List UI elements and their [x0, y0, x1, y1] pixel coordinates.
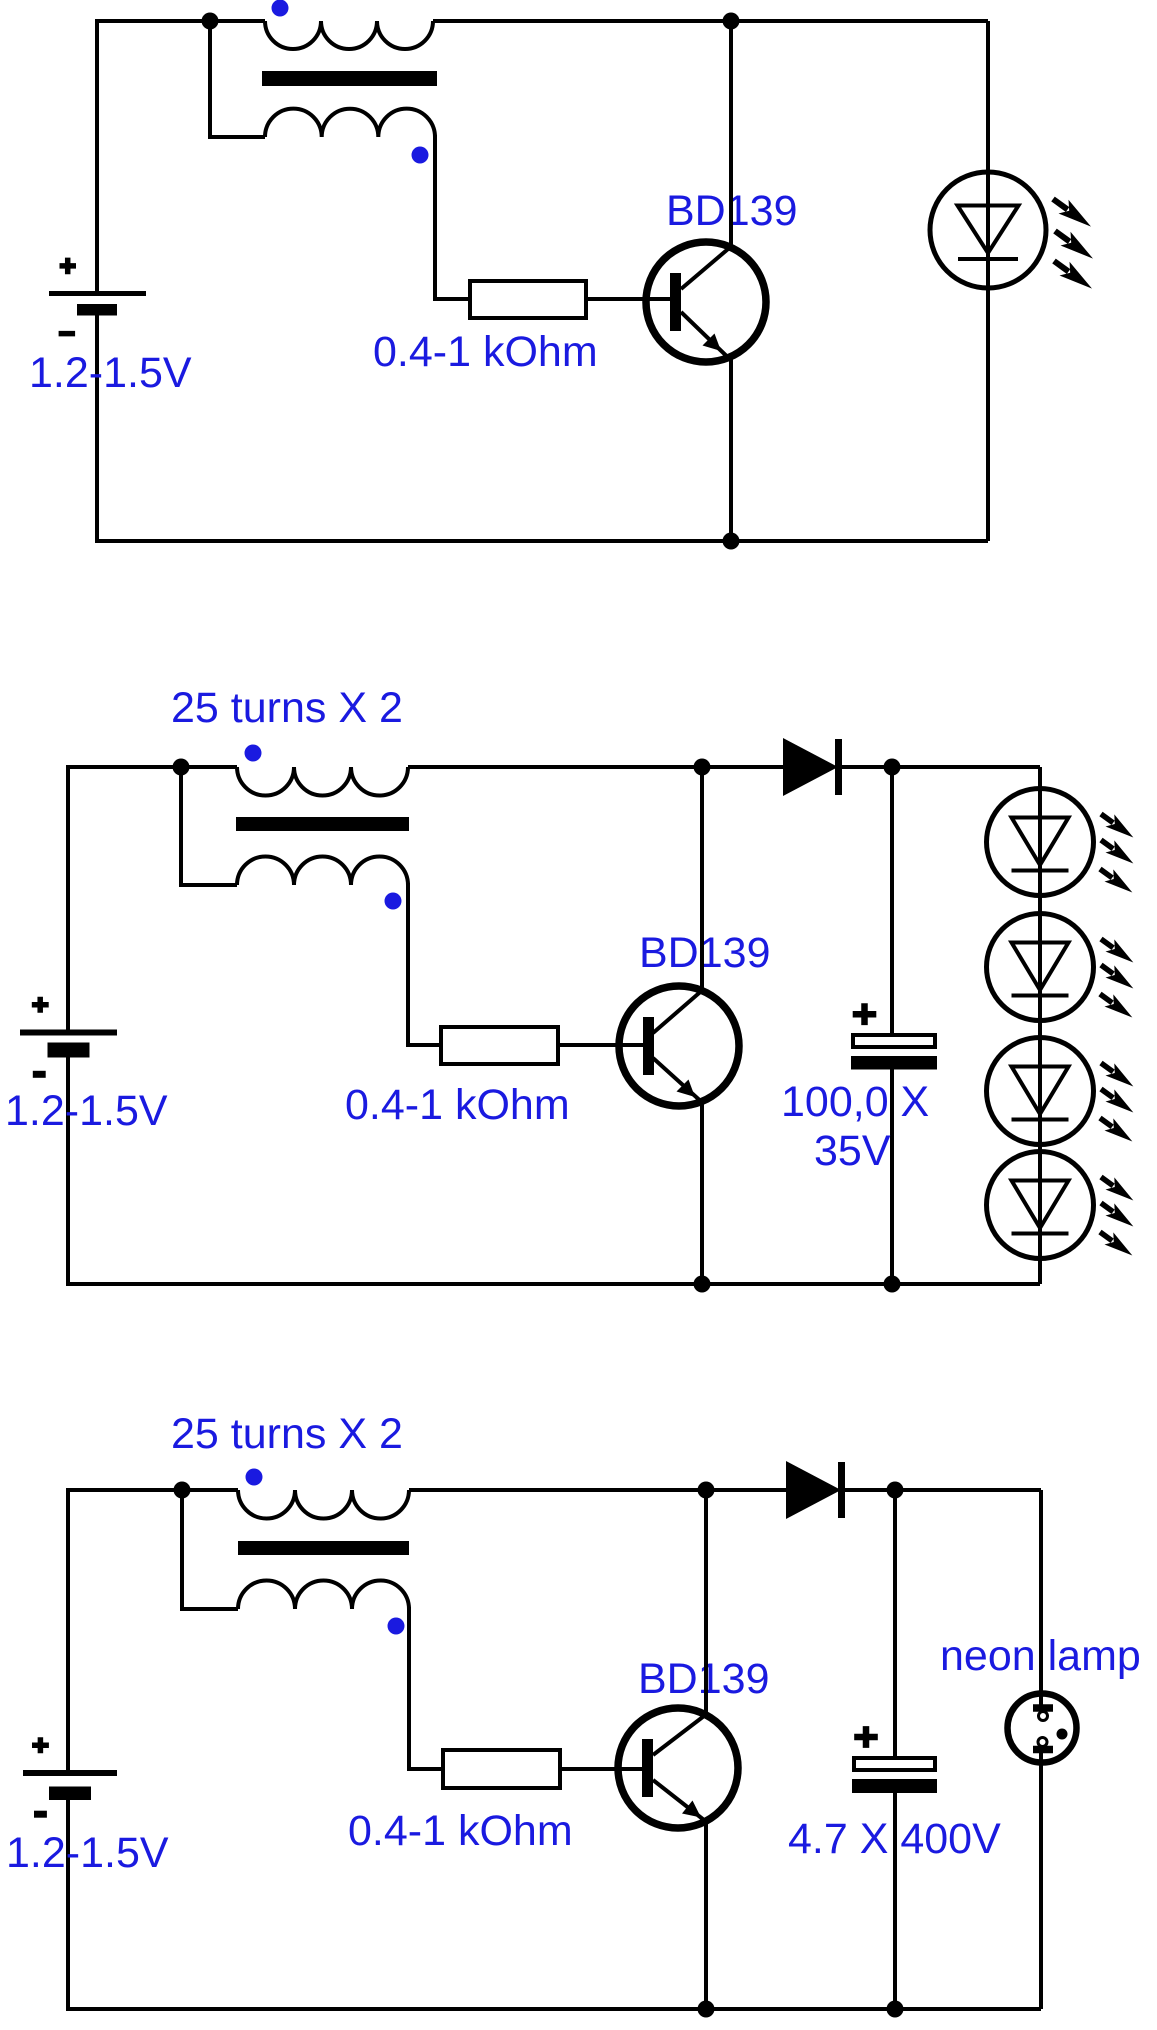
svg-text:BD139: BD139: [638, 1655, 769, 1703]
transistor Q1 body circle: [646, 242, 766, 362]
LED D5 light arrow 3: [1096, 1112, 1137, 1148]
svg-text:25 turns X 2: 25 turns X 2: [171, 1410, 403, 1458]
junction node at transformer tap: [173, 759, 190, 776]
transformer T2 phase dot primary: [245, 745, 262, 762]
neon lamp NE1 bottom electrode tip: [1038, 1738, 1047, 1747]
LED D4 light arrow 1: [1097, 933, 1138, 969]
LED D4 light arrow 2: [1097, 959, 1138, 995]
svg-text:100,0 X: 100,0 X: [781, 1078, 929, 1126]
LED D1 light arrow 2: [1050, 224, 1098, 265]
wire: bottom rail: [66, 1282, 1040, 1286]
LED D1 light arrow 1: [1048, 192, 1096, 233]
neon lamp NE1 gas dot: [1057, 1729, 1068, 1740]
diode D2 triangle: [783, 738, 838, 796]
junction node collector top: [698, 1482, 715, 1499]
wire: neon lamp top vertical: [1039, 1490, 1043, 1708]
LED D1 light arrow 3: [1049, 254, 1097, 295]
transistor Q2 collector lead: [653, 991, 702, 1034]
transistor Q1 emitter arrow: [703, 334, 722, 352]
neon lamp NE1 bottom electrode: [1033, 1746, 1053, 1754]
wire: capacitor bottom vertical: [893, 1793, 897, 2009]
transformer T3 core: [238, 1541, 409, 1555]
wire: bottom rail: [95, 539, 988, 543]
svg-text:1.2-1.5V: 1.2-1.5V: [29, 349, 192, 397]
junction node collector top: [694, 759, 711, 776]
transistor Q2 emitter lead: [653, 1058, 700, 1101]
wire: left rail battery top side: [95, 19, 99, 291]
battery B2 minus sign: [33, 1071, 46, 1078]
junction node capacitor bottom: [887, 2001, 904, 2018]
wire: top rail transformer to diode: [409, 1488, 789, 1492]
transformer T1 secondary winding: [265, 109, 435, 137]
battery B2 plus terminal plate: [20, 1030, 117, 1036]
wire: collector vertical: [700, 767, 704, 991]
wire: left rail battery bottom side: [66, 1799, 70, 2011]
wire: from junction down to secondary winding: [210, 21, 265, 137]
LED D4 light arrow 3: [1096, 988, 1137, 1024]
wire: left rail battery bottom side: [66, 1056, 70, 1286]
battery B3 plus terminal plate: [23, 1770, 117, 1776]
neon lamp NE1 top electrode tip: [1039, 1712, 1048, 1721]
LED D6 light arrow 3: [1096, 1226, 1137, 1262]
wire: emitter vertical: [729, 357, 733, 542]
wire: left rail battery top side: [66, 765, 70, 1030]
junction node at transformer tap: [174, 1482, 191, 1499]
transistor Q1 collector lead: [681, 247, 731, 290]
wire: LED branch vertical: [986, 21, 990, 541]
LED D1 triangle: [958, 206, 1019, 254]
wire: secondary to resistor: [408, 883, 441, 1045]
junction node at transformer tap: [202, 13, 219, 30]
transformer T1 phase dot primary: [272, 0, 289, 17]
transformer T2 core: [236, 817, 409, 831]
transistor Q2 emitter arrow: [677, 1080, 696, 1098]
wire: top rail from battery + to LED column: [97, 19, 265, 23]
wire: collector vertical: [704, 1490, 708, 1715]
wire: bottom rail: [66, 2007, 1041, 2011]
transistor Q1 emitter lead: [681, 312, 726, 356]
svg-text:1.2-1.5V: 1.2-1.5V: [6, 1829, 169, 1877]
wire: resistor to transistor base: [560, 1767, 642, 1771]
junction node emitter bottom: [723, 533, 740, 550]
LED D1 body: [930, 172, 1046, 288]
LED D3 body: [987, 789, 1094, 896]
transformer T2 phase dot secondary: [385, 893, 402, 910]
transistor Q3 body circle: [618, 1708, 738, 1828]
transformer T3 secondary winding: [238, 1581, 409, 1610]
resistor R2: [441, 1027, 558, 1064]
wire: resistor to transistor base: [586, 297, 670, 301]
battery B2 minus terminal plate: [48, 1043, 90, 1058]
junction node emitter bottom: [698, 2001, 715, 2018]
battery B1 minus terminal plate: [77, 304, 117, 316]
capacitor C2 plus sign: [854, 1726, 878, 1748]
wire: junction down to secondary winding: [182, 1490, 238, 1609]
transistor Q2 base bar: [643, 1017, 654, 1075]
wire: LED chain vertical: [1038, 767, 1042, 1284]
wire: capacitor bottom vertical: [890, 1069, 894, 1284]
transformer T3 phase dot primary: [246, 1469, 263, 1486]
wire: top rail from battery to transformer: [68, 1488, 238, 1492]
battery B1 plus sign: [60, 258, 77, 275]
transformer T3 primary winding: [238, 1490, 409, 1519]
wire: secondary to resistor: [409, 1607, 443, 1769]
LED D5 light arrow 1: [1097, 1057, 1138, 1093]
svg-text:1.2-1.5V: 1.2-1.5V: [5, 1087, 168, 1135]
svg-text:0.4-1 kOhm: 0.4-1 kOhm: [345, 1081, 570, 1129]
wire: emitter vertical: [700, 1101, 704, 1284]
svg-text:4.7 X 400V: 4.7 X 400V: [788, 1815, 1001, 1863]
LED D1 cathode bar: [958, 257, 1018, 261]
transformer T1 primary winding: [265, 21, 433, 49]
transistor Q3 emitter lead: [653, 1780, 704, 1820]
neon lamp NE1 top electrode: [1033, 1704, 1053, 1712]
diode D2 cathode bar: [835, 739, 842, 795]
transformer T2 secondary winding: [237, 857, 408, 886]
wire: left rail battery top side: [66, 1488, 70, 1770]
svg-text:35V: 35V: [814, 1127, 891, 1175]
LED D5 light arrow 2: [1097, 1083, 1138, 1119]
diode D7 cathode bar: [838, 1462, 845, 1518]
LED D6 body: [987, 1152, 1094, 1259]
junction node diode cathode: [884, 759, 901, 776]
transformer T3 phase dot secondary: [388, 1618, 405, 1635]
junction node diode cathode: [887, 1482, 904, 1499]
svg-text:BD139: BD139: [639, 929, 770, 977]
wire: junction down to secondary winding: [181, 767, 237, 885]
wire: left rail battery bottom side: [95, 315, 99, 543]
wire: collector vertical: [729, 21, 733, 248]
LED D6 light arrow 1: [1097, 1171, 1138, 1207]
diode D7 triangle: [786, 1461, 841, 1519]
wire: resistor to transistor base: [558, 1043, 643, 1047]
wire: secondary to resistor: [435, 135, 470, 299]
LED D3 light arrow 1: [1097, 808, 1138, 844]
svg-text:0.4-1 kOhm: 0.4-1 kOhm: [348, 1807, 573, 1855]
wire: capacitor top vertical: [890, 767, 894, 1033]
LED D4 body: [987, 914, 1094, 1021]
LED D6 light arrow 2: [1097, 1197, 1138, 1233]
transistor Q3 collector lead: [653, 1715, 706, 1756]
transformer T1 core: [262, 71, 437, 86]
transformer T2 primary winding: [237, 767, 408, 796]
resistor R3: [443, 1750, 560, 1788]
svg-text:25 turns X 2: 25 turns X 2: [171, 684, 403, 732]
battery B3 minus terminal plate: [49, 1787, 91, 1801]
junction node emitter bottom: [694, 1276, 711, 1293]
transistor Q3 emitter arrow: [682, 1801, 701, 1818]
wire: top rail right of transformer: [433, 19, 988, 23]
wire: top rail transformer to diode: [408, 765, 786, 769]
junction node collector top: [723, 13, 740, 30]
neon lamp NE1 bulb: [1008, 1694, 1077, 1763]
wire: emitter vertical: [704, 1821, 708, 2009]
LED D3 light arrow 2: [1097, 834, 1138, 870]
wire: top rail diode to neon lamp: [841, 1488, 1041, 1492]
transformer T1 phase dot secondary: [412, 147, 429, 164]
battery B1 plus terminal plate: [49, 291, 146, 296]
capacitor C1 negative plate: [851, 1056, 937, 1070]
transistor Q2 body circle: [619, 986, 739, 1106]
battery B3 minus sign: [34, 1811, 47, 1818]
battery B1 minus sign: [59, 331, 76, 337]
battery B2 plus sign: [32, 997, 49, 1013]
transistor Q3 base bar: [642, 1739, 653, 1797]
wire: top rail from battery to transformer: [68, 765, 237, 769]
capacitor C2 negative plate: [852, 1779, 937, 1793]
resistor R1: [470, 281, 586, 318]
svg-text:0.4-1 kOhm: 0.4-1 kOhm: [373, 328, 598, 376]
wire: top rail diode to LED chain: [838, 765, 1040, 769]
transistor Q1 base bar: [670, 273, 681, 331]
wire: neon lamp bottom vertical: [1039, 1750, 1043, 2010]
capacitor C1 positive plate: [853, 1035, 935, 1047]
capacitor C2 positive plate: [854, 1758, 935, 1770]
LED D3 light arrow 3: [1096, 863, 1137, 899]
battery B3 plus sign: [32, 1737, 49, 1753]
junction node capacitor bottom: [884, 1276, 901, 1293]
LED D5 body: [987, 1038, 1094, 1145]
capacitor C1 plus sign: [853, 1003, 877, 1025]
wire: capacitor top vertical: [893, 1490, 897, 1756]
